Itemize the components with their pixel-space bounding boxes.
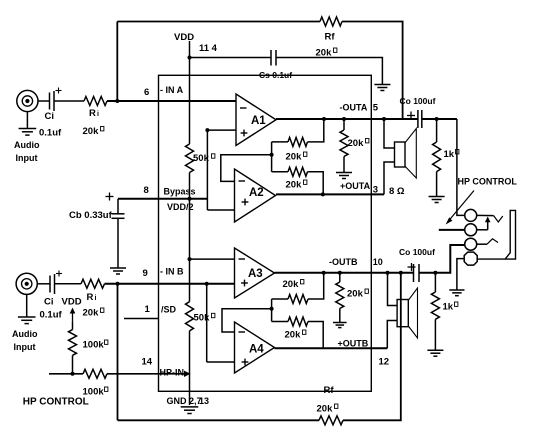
svg-text:R: R	[87, 292, 94, 303]
power VDD label	[174, 32, 194, 43]
svg-text:+OUTA: +OUTA	[340, 181, 371, 191]
wire left rail B down	[117, 284, 119, 421]
label Audio Input (A)	[14, 140, 40, 163]
svg-text:A2: A2	[249, 187, 264, 199]
wire fb B mid up	[271, 299, 273, 309]
wire top feedback rail (node -INA to Rf)	[117, 21, 320, 23]
label 20k ohm (Rf A)	[316, 48, 337, 59]
label GND 2,713	[167, 396, 210, 406]
label 8 ohm speaker A	[389, 186, 405, 197]
wire bypass to opamp + rail	[190, 198, 208, 200]
svg-text:0.1uf: 0.1uf	[40, 310, 63, 321]
polarity + (Ci B)	[56, 271, 62, 277]
resistor 20k (B lower fb)	[288, 317, 308, 326]
svg-text:/SD: /SD	[161, 305, 177, 315]
svg-text:20k: 20k	[286, 152, 303, 163]
wire Ci to R (A)	[54, 100, 84, 102]
svg-text:-OUTA: -OUTA	[340, 103, 368, 113]
pin HP-IN arrowhead	[184, 371, 191, 377]
svg-text:3: 3	[373, 185, 378, 196]
label 0.1uf (Ci B)	[40, 310, 63, 321]
pin -OUTB label	[329, 257, 358, 267]
svg-text:VDD: VDD	[174, 32, 194, 43]
svg-text:20k: 20k	[83, 308, 100, 319]
svg-text:+OUTB: +OUTB	[338, 339, 369, 349]
label HP CONTROL (left)	[23, 397, 89, 408]
A4 minus sign	[239, 331, 246, 333]
svg-text:9: 9	[143, 268, 148, 279]
pin -IN A label	[160, 85, 184, 95]
connector Audio Input A (BNC)	[17, 90, 38, 111]
svg-text:100k: 100k	[83, 340, 105, 351]
label Co 100uf (B)	[399, 247, 435, 257]
wire c4 to ground	[457, 259, 465, 290]
label Cb 0.33uf	[69, 210, 113, 221]
label 20k ohm (shunt A)	[348, 138, 369, 149]
svg-text:20k: 20k	[348, 138, 365, 149]
svg-text:- IN A: - IN A	[160, 85, 184, 95]
wire 50k to bypass node	[189, 173, 191, 199]
wire Cb to ground	[117, 218, 119, 268]
arrow HP control to switch	[446, 191, 474, 225]
node -INB junction	[116, 282, 120, 286]
A2 minus sign	[239, 180, 246, 182]
polarity + (Co A)	[407, 112, 415, 120]
node A3 minus tap	[188, 257, 192, 261]
resistor 100k series	[83, 369, 107, 378]
wire fb B upper left lead	[272, 298, 288, 300]
power VDD label (B)	[62, 297, 82, 308]
svg-text:Rf: Rf	[324, 385, 335, 396]
node OUTA speaker junction	[382, 117, 386, 121]
wire A4 - input L path	[222, 309, 272, 332]
svg-text:12: 12	[379, 357, 390, 368]
polarity + (Ci A)	[56, 88, 62, 94]
op-amp A1	[236, 94, 276, 146]
wire A2 - input L path	[221, 155, 272, 182]
node 1k A junction	[435, 117, 439, 121]
ground (1k A)	[429, 197, 445, 203]
svg-text:HP-IN: HP-IN	[160, 368, 185, 378]
label A1	[251, 115, 266, 127]
label Ci	[45, 111, 55, 122]
polarity + (Cb)	[106, 193, 114, 201]
wire /SD stub	[124, 318, 159, 320]
svg-text:0.1uf: 0.1uf	[39, 128, 62, 139]
svg-text:20k: 20k	[286, 180, 303, 191]
label 20k ohm (Rf B)	[317, 404, 338, 415]
wire A3 output to Co (OUTB)	[275, 272, 414, 274]
A4 plus sign	[242, 359, 249, 366]
ground (Cb)	[110, 268, 126, 274]
svg-text:6: 6	[144, 87, 149, 98]
pin 5 number	[373, 103, 379, 114]
wire A2 + input	[207, 209, 234, 211]
svg-text:HP CONTROL: HP CONTROL	[23, 397, 89, 408]
wire Rf B to OUTB	[343, 273, 401, 421]
wire R to -INA pin and A1	[107, 100, 236, 102]
label 20k ohm (B upper fb)	[283, 279, 304, 290]
node OUTA 20k junction	[342, 117, 346, 121]
svg-text:Input: Input	[14, 342, 36, 352]
wire +OUTB to speaker B bottom	[387, 321, 397, 349]
wire bottom rail to Rf B	[118, 419, 320, 421]
pin 6 number	[144, 87, 149, 98]
node OUTB 20k junction	[338, 271, 342, 275]
wire c2 switch arm with arrow	[477, 217, 491, 230]
node A1 + junction	[205, 128, 209, 132]
svg-text:8: 8	[144, 185, 149, 196]
node feedback A mid	[270, 153, 274, 157]
svg-text:Input: Input	[16, 153, 38, 163]
label 20k ohm (B lower fb)	[285, 330, 306, 341]
wire fb A upper left lead	[272, 141, 288, 143]
node OUTB Rf junction	[399, 271, 403, 275]
node VDD junction	[188, 56, 192, 60]
wire R to -INB pin and A3	[105, 283, 235, 285]
label Rf	[325, 32, 336, 43]
resistor 50k (lower divider)	[186, 302, 194, 331]
wire A2 output (+OUTA)	[276, 193, 384, 195]
svg-text:A3: A3	[248, 268, 263, 280]
resistor 1k (A)	[433, 119, 441, 197]
pin -OUTA label	[340, 103, 368, 113]
A2 plus sign	[242, 199, 249, 206]
wire c1 switch contact	[477, 215, 503, 222]
wire fb A mid up	[271, 142, 273, 155]
arrow VDD up (100k)	[70, 308, 76, 322]
svg-text:-OUTB: -OUTB	[329, 257, 358, 267]
svg-text:Cb 0.33uf: Cb 0.33uf	[69, 210, 113, 221]
resistor 50k (upper divider)	[186, 144, 194, 173]
wire channel A down to jack tip	[457, 119, 465, 215]
ground (20k shunt A)	[336, 173, 352, 179]
wire BNC A to Ci	[38, 100, 50, 102]
wire BNC B to Ci	[37, 283, 50, 285]
resistor 20k shunt (B)	[336, 273, 344, 323]
pin +OUTA label	[340, 181, 371, 191]
capacitor Cs plates	[271, 50, 276, 66]
wire fb B upper to OUTB	[308, 273, 324, 299]
svg-text:VDD: VDD	[62, 297, 82, 308]
jack contact ring2 (c3)	[465, 238, 477, 250]
svg-text:Co 100uf: Co 100uf	[399, 247, 435, 257]
svg-text:50k: 50k	[194, 313, 211, 324]
wire Rf to OUTA corner	[342, 22, 403, 120]
wire +OUTA to speaker A bottom	[384, 162, 395, 194]
wire fb A lower to A2 out	[308, 172, 324, 195]
wire switch stub to c2	[439, 229, 465, 231]
pin Bypass label	[164, 187, 196, 197]
ground (20k shunt B)	[333, 323, 347, 328]
wire fb B mid down	[271, 309, 273, 322]
wire A1 output to Co (OUTA)	[276, 118, 418, 120]
capacitor Co (B) plates	[414, 264, 420, 282]
wire left rail A up to top rail	[116, 22, 118, 102]
resistor 1k (B)	[431, 273, 439, 350]
label Ci (B)	[44, 297, 54, 308]
svg-text:20k: 20k	[83, 126, 100, 137]
node 100k junction	[71, 372, 75, 376]
speaker B	[397, 288, 417, 338]
wire HP control input	[49, 373, 83, 375]
pin 1 number	[145, 304, 151, 315]
node 1k B junction	[433, 271, 437, 275]
ground (1k B)	[427, 350, 443, 356]
resistor 20k shunt (A)	[340, 119, 348, 173]
label A3	[248, 268, 263, 280]
node OUTA fb junction	[322, 117, 326, 121]
connector Audio Input B (BNC)	[16, 273, 37, 294]
resistor 20k (A upper fb)	[288, 137, 308, 146]
label 20k ohm (A upper fb)	[286, 152, 307, 163]
label 20k ohm (Ri B)	[83, 308, 104, 319]
resistor 20k (B upper fb)	[288, 295, 308, 304]
wire opamp + rail vertical	[206, 130, 208, 210]
svg-text:10: 10	[373, 257, 383, 267]
wire c3 switch contact	[477, 239, 498, 244]
node A4 + junction	[205, 282, 209, 286]
wire A4 + rail vertical	[206, 284, 208, 362]
label 0.1uf (Ci A)	[39, 128, 62, 139]
label Rf (B)	[324, 385, 335, 396]
wire VDD to Cs	[190, 57, 272, 59]
label 1k ohm (B)	[443, 302, 458, 313]
pin 9 number	[143, 268, 148, 279]
label Ri (B)	[87, 292, 97, 303]
wire fb B lower to A4 out	[308, 322, 323, 349]
svg-text:A1: A1	[251, 115, 266, 127]
svg-text:GND 2,7: GND 2,7	[167, 396, 202, 406]
op-amp A2	[235, 169, 276, 222]
svg-text:20k: 20k	[285, 330, 302, 341]
svg-text:20k: 20k	[347, 289, 364, 300]
wire divider to lower 50k	[189, 259, 191, 302]
A1 plus sign	[241, 130, 248, 137]
resistor Rf (channel B) 20k	[319, 416, 343, 425]
resistor 20k (A lower fb)	[288, 167, 308, 176]
ground (GND pin)	[181, 407, 199, 414]
svg-text:1k: 1k	[444, 149, 455, 160]
wire Cs to ground	[276, 58, 382, 85]
pin 8 number	[144, 185, 149, 196]
label 50k ohm (upper)	[193, 153, 215, 164]
pin -IN B label	[160, 267, 184, 277]
ground (audio input B)	[18, 294, 36, 323]
resistor 100k pullup	[69, 321, 77, 374]
jack contact tip (c1)	[465, 209, 477, 221]
ground (jack sleeve)	[449, 290, 464, 296]
wire OUTA to speaker A top	[384, 119, 395, 148]
ground (Cs)	[374, 85, 390, 91]
wire VDD vertical into pin 11/4	[189, 41, 191, 144]
IC amplifier box U1	[159, 75, 372, 391]
svg-text:Co 100uf: Co 100uf	[400, 96, 436, 106]
label 20k ohm (shunt B)	[347, 289, 368, 300]
wire divider mid down to A3 tap	[189, 199, 191, 259]
wire bypass out to Cb	[118, 198, 190, 200]
wire fb A lower left lead	[272, 171, 288, 173]
pin 14 number	[142, 357, 153, 368]
svg-text:i: i	[95, 295, 97, 302]
label 20k ohm (A lower fb)	[286, 180, 307, 191]
pin 3 number	[373, 185, 378, 196]
label 50k ohm (lower)	[194, 313, 215, 324]
wire fb A mid down	[271, 155, 273, 172]
svg-text:1k: 1k	[443, 302, 454, 313]
op-amp A4	[235, 322, 275, 373]
label 100k ohm (pullup)	[83, 340, 108, 351]
speaker A	[395, 129, 417, 179]
capacitor Co (A) plates	[418, 110, 422, 128]
node -INA junction	[115, 99, 119, 103]
A3 plus sign	[241, 280, 248, 287]
node +OUTA fb junction	[321, 192, 325, 196]
svg-text:1: 1	[145, 304, 151, 315]
jack contact sleeve (c4)	[464, 252, 477, 265]
node feedback B mid	[270, 307, 274, 311]
wire fb A upper to OUTA	[308, 119, 324, 142]
node OUTB fb junction	[322, 271, 326, 275]
wire Ci to R (B)	[55, 283, 82, 285]
pin 10 number	[373, 257, 383, 267]
label 100k ohm (series)	[83, 387, 108, 398]
wire fb B lower left lead	[272, 321, 288, 323]
wire OUTB to speaker B top	[388, 273, 398, 306]
resistor Ri (B) 20k	[81, 279, 105, 288]
label Ri (A)	[89, 108, 99, 119]
wire A3 - input	[190, 258, 235, 260]
wire Co A to jack	[422, 118, 457, 120]
A3 minus sign	[239, 258, 246, 260]
svg-text:13: 13	[199, 396, 209, 406]
svg-text:Ci: Ci	[45, 111, 55, 122]
svg-text:- IN B: - IN B	[160, 267, 184, 277]
label A4	[249, 344, 264, 356]
svg-text:A4: A4	[249, 344, 264, 356]
label Co 100uf (A)	[400, 96, 436, 106]
svg-text:Audio: Audio	[14, 140, 40, 150]
capacitor Cb plates	[112, 199, 125, 219]
svg-text:Ci: Ci	[44, 297, 54, 308]
headphone plug	[477, 210, 516, 259]
label pins 11 4	[199, 43, 218, 54]
op-amp A3	[235, 248, 275, 298]
wire Co B to jack	[419, 245, 466, 273]
svg-text:20k: 20k	[317, 404, 334, 415]
svg-text:8 Ω: 8 Ω	[389, 186, 405, 197]
svg-text:Bypass: Bypass	[164, 187, 196, 197]
svg-text:5: 5	[373, 103, 379, 114]
label Cs 0.1uf	[259, 70, 292, 80]
pin 12 number	[379, 357, 390, 368]
polarity + (Co B)	[408, 263, 416, 271]
svg-text:R: R	[89, 108, 96, 119]
svg-text:14: 14	[142, 357, 153, 368]
wire 100k to HP-IN pin	[107, 373, 185, 375]
label HP CONTROL (jack)	[458, 177, 518, 187]
svg-text:20k: 20k	[283, 279, 300, 290]
resistor Ri (A) 20k	[84, 97, 107, 106]
wire A1 + input	[207, 129, 236, 131]
ground (audio input A)	[19, 112, 37, 136]
svg-text:Audio: Audio	[12, 329, 38, 339]
svg-text:Rf: Rf	[325, 32, 336, 43]
svg-text:11 4: 11 4	[199, 43, 218, 54]
pin VDD/2 label	[167, 202, 194, 212]
pin +OUTB label	[338, 339, 369, 349]
pin HP-IN label	[160, 368, 185, 378]
pin /SD label	[161, 305, 177, 315]
capacitor Ci (A) plates	[50, 91, 55, 111]
A1 minus sign	[240, 107, 247, 109]
node bypass/50k junction	[188, 197, 192, 201]
wire A4 + input	[207, 361, 235, 363]
wire lower 50k to GND pin	[189, 331, 191, 405]
jack contact ring (c2)	[465, 224, 477, 236]
label 20k ohm (Ri A)	[83, 126, 104, 137]
resistor Rf (channel A) 20k	[320, 17, 342, 26]
wire A4 output (+OUTB)	[275, 347, 388, 349]
label Audio Input (B)	[12, 329, 38, 352]
label A2	[249, 187, 264, 199]
node OUTB speaker junction	[386, 271, 390, 275]
svg-text:HP CONTROL: HP CONTROL	[458, 177, 518, 187]
capacitor Ci (B) plates	[50, 274, 55, 294]
label 1k ohm (A)	[444, 149, 459, 160]
svg-text:i: i	[97, 111, 99, 118]
svg-text:VDD/2: VDD/2	[167, 202, 194, 212]
